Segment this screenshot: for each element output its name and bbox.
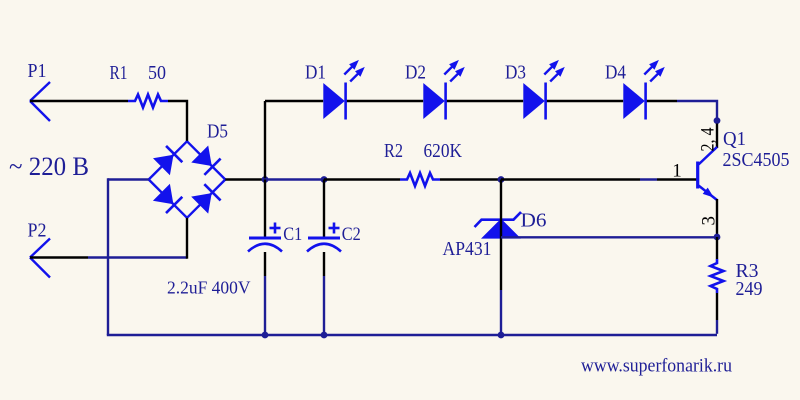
bridge diode top-right (anode top corner, cathode right) bbox=[191, 146, 220, 175]
junction dot C2 at bus bbox=[321, 332, 328, 339]
wire node B down to C2 bbox=[323, 180, 325, 238]
node C junction dot (501,179.5) bbox=[498, 176, 505, 183]
label D2 bbox=[405, 62, 426, 84]
wire collector dot to Q1 (black) bbox=[716, 124, 718, 149]
bridge diode bottom-left (anode left corner, cathode bottom) bbox=[153, 184, 182, 213]
node E junction dot (717,237) bbox=[714, 234, 721, 241]
junction dot C1 at bus bbox=[262, 332, 269, 339]
value 620K (R2) bbox=[424, 140, 463, 162]
capacitor C2 plus sign bbox=[329, 223, 340, 234]
label ~220V AC input bbox=[9, 152, 89, 181]
value 2SC4505 (Q1) bbox=[723, 149, 790, 171]
svg-text:2, 4: 2, 4 bbox=[698, 127, 719, 151]
wire node C to Q1 base (black part) bbox=[501, 178, 640, 180]
wire R3 to bus (black part) bbox=[716, 293, 718, 320]
svg-text:50: 50 bbox=[148, 62, 166, 84]
transistor Q1 base bar bbox=[696, 162, 699, 189]
svg-text:C1: C1 bbox=[283, 224, 302, 245]
wire LED row right end (navy) to Q1 collector corner bbox=[677, 101, 717, 118]
junction dot D6 at bus bbox=[498, 332, 505, 339]
label Q1 bbox=[723, 128, 746, 150]
connector P2 arrow bbox=[30, 239, 50, 278]
svg-text:620K: 620K bbox=[424, 140, 463, 162]
wire C1 to bus (navy part) bbox=[264, 276, 266, 335]
wire bottom bus bbox=[107, 334, 717, 336]
svg-text:2.2uF 400V: 2.2uF 400V bbox=[167, 278, 251, 298]
label AP431 bbox=[443, 238, 492, 260]
label R1 bbox=[110, 62, 128, 84]
value 249 (R3) bbox=[736, 278, 763, 300]
svg-text:249: 249 bbox=[736, 278, 763, 300]
connector P1 arrow bbox=[30, 82, 50, 121]
wire bridge right corner to node A bbox=[225, 178, 265, 180]
label R3 bbox=[736, 260, 759, 282]
bridge rectifier D5 diamond outline bbox=[149, 141, 226, 218]
wire P1 to R1 bbox=[30, 100, 128, 102]
svg-text:P1: P1 bbox=[28, 60, 47, 82]
capacitor C1 top plate bbox=[249, 237, 281, 240]
wire to Q1 base (black part 2) bbox=[657, 178, 697, 180]
svg-text:C2: C2 bbox=[342, 224, 361, 245]
LED D4 bbox=[623, 60, 665, 120]
wire left rail vertical bbox=[107, 178, 109, 335]
wire node A up to LED row bbox=[264, 101, 266, 178]
value 50 (R1) bbox=[148, 62, 166, 84]
label C2 bbox=[342, 224, 361, 245]
pin label 1 (Q1 base) bbox=[672, 160, 682, 181]
wire D6 anode to bus (navy part) bbox=[500, 290, 502, 335]
node B junction dot (324,179.5) bbox=[321, 176, 328, 183]
LED D2 bbox=[423, 60, 465, 120]
value label 2.2uF 400V bbox=[167, 278, 251, 298]
label P2 bbox=[28, 220, 47, 242]
resistor R2 bbox=[400, 173, 440, 186]
svg-text:www.superfonarik.ru: www.superfonarik.ru bbox=[581, 356, 732, 377]
label D5 bbox=[207, 121, 228, 143]
svg-text:R1: R1 bbox=[110, 62, 128, 84]
svg-text:D3: D3 bbox=[505, 62, 526, 84]
pin label 2, 4 (collector, rotated) bbox=[698, 127, 719, 151]
svg-text:2SC4505: 2SC4505 bbox=[723, 149, 790, 171]
wire node C to Q1 base (navy part) bbox=[640, 178, 657, 180]
LED D1 bbox=[323, 60, 365, 120]
LED D3 bbox=[523, 60, 565, 120]
svg-text:Q1: Q1 bbox=[723, 128, 746, 150]
resistor R1 bbox=[128, 95, 168, 108]
bridge diode top-left (anode left corner, cathode top) bbox=[153, 146, 182, 175]
svg-text:D6: D6 bbox=[521, 210, 547, 232]
wire D6 anode to Q1 emitter node bbox=[501, 236, 717, 238]
node D junction dot collector (717,120.6) bbox=[714, 117, 721, 124]
svg-text:D5: D5 bbox=[207, 121, 228, 143]
wire R3 to bus corner (navy part) bbox=[716, 320, 718, 334]
wire P2 (black part) bbox=[30, 256, 88, 258]
capacitor C2 top plate bbox=[308, 237, 340, 240]
wire node B to R2 bbox=[324, 178, 400, 180]
capacitor C1 plus sign bbox=[270, 223, 281, 234]
label P1 bbox=[28, 60, 47, 82]
label D6 bbox=[521, 210, 547, 232]
label D4 bbox=[605, 62, 626, 84]
wire C1 to bus (black part) bbox=[264, 252, 266, 276]
wire Q1 emitter down to node E bbox=[716, 199, 718, 235]
wire R2 to node C bbox=[440, 178, 501, 180]
svg-text:D4: D4 bbox=[605, 62, 626, 84]
svg-text:1: 1 bbox=[672, 160, 682, 181]
label D1 bbox=[305, 62, 326, 84]
svg-text:D2: D2 bbox=[405, 62, 426, 84]
shunt regulator D6 anode triangle bbox=[481, 219, 521, 239]
transistor Q1 emitter lead with arrow bbox=[699, 186, 718, 201]
wire node E to R3 bbox=[716, 237, 718, 259]
wire P2 (navy part) bbox=[88, 256, 187, 258]
wire node A down to C1 bbox=[264, 180, 266, 238]
node A junction dot (265,179.5) bbox=[262, 176, 269, 183]
wire LED row (black segments) bbox=[265, 100, 677, 102]
wire node C down through D6 (black part) bbox=[500, 180, 502, 291]
wire node A to node B bbox=[265, 178, 324, 180]
wire bridge left corner to left rail bbox=[108, 178, 149, 180]
wire R1 to bridge top bbox=[168, 101, 187, 142]
resistor R3 bbox=[711, 259, 724, 293]
capacitor C1 bottom plate (arc) bbox=[248, 244, 282, 252]
bridge diode bottom-right (anode bottom corner, cathode right) bbox=[191, 184, 220, 213]
label R2 bbox=[384, 140, 403, 162]
wire C2 to bus (black part) bbox=[323, 252, 325, 276]
capacitor C2 bottom plate (arc) bbox=[307, 244, 341, 252]
svg-text:R2: R2 bbox=[384, 140, 403, 162]
website text www.superfonarik.ru bbox=[581, 356, 732, 377]
svg-text:P2: P2 bbox=[28, 220, 47, 242]
pin label 3 (emitter, rotated) bbox=[698, 216, 719, 226]
svg-text:~ 220 В: ~ 220 В bbox=[9, 152, 89, 181]
label C1 bbox=[283, 224, 302, 245]
svg-text:3: 3 bbox=[698, 216, 719, 226]
wire bridge bottom to P2 wire bbox=[186, 218, 188, 259]
svg-text:AP431: AP431 bbox=[443, 238, 492, 260]
wire C2 to bus (navy part) bbox=[323, 276, 325, 335]
label D3 bbox=[505, 62, 526, 84]
svg-text:D1: D1 bbox=[305, 62, 326, 84]
transistor Q1 collector lead bbox=[699, 147, 718, 165]
shunt regulator D6 cathode bar with zener hooks bbox=[475, 212, 522, 227]
